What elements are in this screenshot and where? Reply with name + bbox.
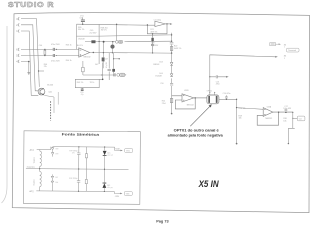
wire AC1 node to diodes xyxy=(50,147,52,150)
wire Q01 collector down xyxy=(57,92,59,105)
svg-text:1W 1%: 1W 1% xyxy=(101,30,107,32)
svg-text:4: 4 xyxy=(16,60,18,64)
op-amp U01A NE5532 xyxy=(79,48,90,57)
svg-text:Q01: Q01 xyxy=(48,91,52,93)
svg-text:TRAFO: TRAFO xyxy=(33,157,36,164)
svg-text:10k: 10k xyxy=(283,121,286,123)
arrow small box flag xyxy=(279,43,281,45)
zener DZ2 body xyxy=(102,183,106,187)
node chain 41 xyxy=(171,41,172,42)
wire to output jack xyxy=(293,117,297,119)
resistor R23 dark body xyxy=(151,38,153,42)
wire C07 down xyxy=(102,63,104,80)
wire pin1 to Q01 xyxy=(21,31,38,95)
ground pin4 xyxy=(27,73,30,75)
wire -15V out xyxy=(114,192,120,194)
capacitor C15 below box xyxy=(81,88,83,89)
capacitor C09 plates xyxy=(170,42,174,44)
node U02B output xyxy=(195,97,196,98)
node rail junction at feedback xyxy=(147,24,148,25)
svg-text:AC1: AC1 xyxy=(30,149,35,152)
svg-text:25V: 25V xyxy=(72,152,76,154)
resistor R07 xyxy=(82,61,84,75)
svg-text:47µ: 47µ xyxy=(81,94,84,96)
wire OPT01 up and right to X5 xyxy=(210,55,275,93)
output jack box xyxy=(297,116,305,121)
svg-text:1: 1 xyxy=(284,58,285,60)
wire U03A feedback loop xyxy=(257,112,278,125)
node output jack tap xyxy=(292,112,293,113)
boxed label Terminal xyxy=(286,48,299,52)
diode D07 xyxy=(51,176,54,178)
node rail drop junction xyxy=(116,24,117,25)
transformer winding W1 xyxy=(40,151,42,166)
wire OPT01 output xyxy=(219,95,263,143)
capacitor C15 plates dark xyxy=(81,89,84,90)
svg-text:1N4148: 1N4148 xyxy=(78,39,84,41)
wire chain vertical xyxy=(171,33,173,114)
connector X1 pin 1 xyxy=(18,30,19,33)
wire box left drop to input xyxy=(76,36,78,49)
capacitor C17 xyxy=(285,110,288,113)
svg-text:X5 IN: X5 IN xyxy=(198,178,219,189)
feedback box loop xyxy=(75,79,102,87)
resistor R22 xyxy=(170,46,172,50)
capacitor C18 xyxy=(78,147,80,169)
node pin4 end xyxy=(28,61,30,63)
svg-text:U03A: U03A xyxy=(267,105,272,108)
arrow -15V xyxy=(120,193,122,195)
svg-text:AC2: AC2 xyxy=(29,190,34,193)
svg-text:4k99 1%: 4k99 1% xyxy=(150,32,157,34)
node pin6/R02 junction xyxy=(44,49,45,50)
fonte box frame xyxy=(23,131,140,205)
capacitor C11 plates xyxy=(151,44,154,45)
resistor R31 xyxy=(85,154,87,158)
shielded cable dashes xyxy=(50,101,52,121)
svg-text:D07: D07 xyxy=(55,177,58,179)
zener DZ1 stubs xyxy=(104,147,106,169)
svg-text:6: 6 xyxy=(16,48,18,52)
node pin6 cap junction xyxy=(56,49,57,50)
boxed label VEE xyxy=(124,191,132,195)
svg-text:C15: C15 xyxy=(80,92,83,94)
node U03 output junctions xyxy=(278,112,279,113)
arrow note to OPT01 xyxy=(190,106,210,126)
wire feedback row xyxy=(83,74,114,76)
resistor R23 drop xyxy=(152,34,154,53)
svg-text:1N4148: 1N4148 xyxy=(155,76,161,78)
optocoupler OPT01 xyxy=(207,95,219,104)
wire 41-line left xyxy=(85,41,115,43)
svg-text:C19 2200µ: C19 2200µ xyxy=(69,178,77,180)
node chain out xyxy=(171,52,172,53)
node 41-line big junction xyxy=(103,41,105,43)
wire AC2 input xyxy=(36,190,52,192)
svg-text:C06: C06 xyxy=(79,17,82,19)
svg-text:D03: D03 xyxy=(159,62,162,64)
node junctions fonte xyxy=(78,146,79,147)
svg-text:OPT01: OPT01 xyxy=(207,91,212,93)
wire pin2 to Q01 xyxy=(21,25,38,91)
op-amp U02B xyxy=(172,94,207,109)
op-amp U03A xyxy=(257,108,293,126)
svg-text:-15V: -15V xyxy=(115,196,120,198)
node box right on 41-line xyxy=(99,41,100,42)
diode D03 xyxy=(170,62,173,65)
node 41-line small junction xyxy=(112,41,113,42)
svg-text:Fonte Simétrica: Fonte Simétrica xyxy=(62,132,100,136)
wire junction drop to cap xyxy=(102,42,104,69)
wire top rail xyxy=(53,146,115,148)
transformer winding W2 xyxy=(40,172,42,187)
node out junction xyxy=(93,52,94,53)
svg-text:+15V: +15V xyxy=(115,149,120,151)
arrow +15V xyxy=(120,150,122,152)
svg-text:470n 250V: 470n 250V xyxy=(51,44,60,46)
wire +15V out xyxy=(115,147,121,150)
svg-text:2n2 63V: 2n2 63V xyxy=(89,32,97,34)
wire pin3 to Q01 xyxy=(21,19,39,87)
svg-text:470n 250V: 470n 250V xyxy=(51,61,60,63)
capacitor C14 xyxy=(225,95,227,99)
wire Q01 emitter down xyxy=(44,95,54,113)
svg-text:Pag 73: Pag 73 xyxy=(156,219,169,224)
arrow jack J2 xyxy=(125,74,127,75)
connector X1 pin 2 xyxy=(18,23,19,26)
connector flag small box top right xyxy=(270,43,279,46)
node pin5 cap junction xyxy=(56,55,57,56)
svg-text:BC546: BC546 xyxy=(47,85,53,87)
boxed label VCC xyxy=(125,148,133,152)
capacitor C05 on pin5 line xyxy=(53,54,54,57)
connector X1 pin 4 xyxy=(18,60,19,63)
svg-text:C14 470n: C14 470n xyxy=(223,93,231,95)
svg-text:D08: D08 xyxy=(55,182,58,184)
node R29 end xyxy=(236,143,238,145)
svg-text:D05: D05 xyxy=(55,148,58,150)
arrow U02A output flag xyxy=(170,23,172,25)
wire output down with step xyxy=(288,112,297,143)
node R23 corner xyxy=(152,33,153,34)
capacitor jack row plates xyxy=(114,73,115,76)
stub with end dot xyxy=(114,58,120,60)
svg-text:NE5532: NE5532 xyxy=(265,118,272,120)
node chain end xyxy=(171,113,173,115)
svg-text:2: 2 xyxy=(284,47,285,49)
svg-text:15V 1W: 15V 1W xyxy=(107,187,113,189)
svg-text:OPT01 do outro canal é: OPT01 do outro canal é xyxy=(174,128,219,132)
op-amp U02A top right xyxy=(147,21,170,53)
svg-text:NE5532: NE5532 xyxy=(187,105,194,107)
zener DZ2 stubs xyxy=(103,169,105,191)
jack symbol J2 box xyxy=(120,73,125,76)
svg-text:R09 1%: R09 1% xyxy=(77,82,84,84)
wire pin4 stub xyxy=(21,62,29,73)
wire pin6 input line xyxy=(21,48,79,50)
svg-text:C18 2200µ: C18 2200µ xyxy=(69,150,77,152)
svg-text:C10: C10 xyxy=(160,83,163,85)
wire mid 0V line xyxy=(26,168,129,171)
wire U02A output xyxy=(166,23,171,25)
diode D05 xyxy=(51,148,54,150)
wire pin5 input line xyxy=(21,55,79,57)
svg-text:Terminal: Terminal xyxy=(288,49,296,52)
wire box bottom to chain xyxy=(99,35,172,36)
feedback network box R05/C05 xyxy=(77,24,100,36)
wire pin3 tap stub xyxy=(39,70,45,72)
capacitor C08 on vertical xyxy=(108,53,110,80)
arrow to X5 flag xyxy=(275,56,278,58)
transistor Q01 xyxy=(38,88,45,95)
svg-text:15V 1W: 15V 1W xyxy=(107,155,113,157)
svg-text:1N4148: 1N4148 xyxy=(153,64,159,66)
wire box right drop xyxy=(98,36,100,64)
connector X1 pin 3 xyxy=(18,17,19,20)
diode D07 stub chain xyxy=(51,174,53,191)
svg-text:VEE: VEE xyxy=(126,193,131,195)
capacitor C13 branch xyxy=(210,75,226,78)
svg-text:0V(GND): 0V(GND) xyxy=(27,167,35,169)
svg-text:8k2: 8k2 xyxy=(95,64,98,66)
node pin3 tap xyxy=(38,70,39,71)
jack symbol J2 circle xyxy=(117,74,120,77)
dark component on 41-line xyxy=(91,40,95,43)
connector X1 pin 6 xyxy=(18,48,19,51)
svg-text:VCC: VCC xyxy=(126,150,131,152)
wire bottom rail xyxy=(52,190,114,192)
svg-text:TRAFO: TRAFO xyxy=(33,179,36,186)
dark component on jack vertical xyxy=(112,69,115,72)
capacitor C06 plates xyxy=(81,20,85,22)
svg-text:R03 1k: R03 1k xyxy=(66,45,72,47)
pin stubs OPT01 top xyxy=(210,93,215,95)
svg-text:22k: 22k xyxy=(44,66,47,68)
diode D06 xyxy=(51,153,54,155)
svg-text:TR 1k: TR 1k xyxy=(90,82,95,84)
svg-text:alimentado pela fonte negativa: alimentado pela fonte negativa xyxy=(168,133,223,137)
node stub end xyxy=(119,58,120,59)
power supply box Fonte Simetrica xyxy=(23,131,140,205)
node row junctions xyxy=(102,79,104,81)
diode D04 xyxy=(170,74,173,77)
capacitor C10 plates xyxy=(170,83,173,85)
node C13 tap xyxy=(209,76,210,77)
svg-text:DZ1: DZ1 xyxy=(107,152,110,154)
wire blob stubs xyxy=(111,42,113,53)
svg-text:R28 10k: R28 10k xyxy=(239,108,246,110)
svg-text:1: 1 xyxy=(16,29,18,33)
transistor Q02 blob xyxy=(111,45,115,49)
svg-text:C04: C04 xyxy=(39,45,42,47)
node pin5 line junction xyxy=(44,55,45,56)
svg-text:NE5532: NE5532 xyxy=(84,57,91,59)
svg-text:C07: C07 xyxy=(105,58,108,60)
svg-text:10k: 10k xyxy=(239,118,242,120)
wire U02A feedback loop xyxy=(147,24,167,34)
svg-text:47µ 63V: 47µ 63V xyxy=(106,61,108,68)
resistor R32 xyxy=(85,179,87,183)
arrow C13 flag xyxy=(226,76,229,78)
svg-text:470n: 470n xyxy=(216,84,220,86)
node out-line junctions xyxy=(103,52,104,53)
wire U01 output line xyxy=(90,52,172,55)
svg-text:2: 2 xyxy=(16,23,18,27)
svg-text:D06: D06 xyxy=(55,153,58,155)
svg-text:4k99 1%: 4k99 1% xyxy=(174,48,182,50)
wire AC1 input xyxy=(37,148,51,150)
wire down from junction R29 xyxy=(236,99,238,143)
wire dark comp vertical xyxy=(113,53,115,73)
wire U02B output to OPT01 xyxy=(194,97,207,99)
svg-text:C11 100p: C11 100p xyxy=(154,20,161,22)
wire branch to U03 input xyxy=(237,108,264,110)
capacitor C19 xyxy=(78,169,80,191)
svg-text:Out: Out xyxy=(299,118,303,121)
svg-text:470n: 470n xyxy=(80,16,84,18)
node OPT output junction xyxy=(226,99,227,100)
paper edge xyxy=(2,26,8,203)
svg-text:100n 63V: 100n 63V xyxy=(283,108,291,110)
lower network under U01 xyxy=(75,53,119,89)
trimmer jack symbol xyxy=(115,41,122,44)
node R23 on out line xyxy=(152,52,153,53)
node U02A output junction xyxy=(166,23,167,24)
wire input stub xyxy=(172,95,182,97)
capacitor C06 stub xyxy=(82,18,84,25)
diode D08 xyxy=(51,181,54,183)
svg-text:10µ 63V: 10µ 63V xyxy=(151,45,159,47)
svg-text:39k 1%: 39k 1% xyxy=(78,29,85,31)
wire rail end drop xyxy=(116,24,118,40)
middle component chain xyxy=(170,33,174,114)
schematic frame border xyxy=(12,13,309,213)
svg-text:STUDIO R: STUDIO R xyxy=(8,0,54,9)
svg-text:5: 5 xyxy=(16,54,18,58)
svg-text:U02B: U02B xyxy=(184,90,189,92)
wire U03A output xyxy=(273,111,293,113)
svg-text:R04 1k: R04 1k xyxy=(66,60,72,62)
capacitor C04 on pin6 line xyxy=(53,48,54,51)
resistor R02 between input lines xyxy=(44,50,46,54)
svg-text:3k9 1%: 3k9 1% xyxy=(77,45,84,47)
wire U02B feedback loop xyxy=(175,98,195,109)
wire feedback rail above U01 xyxy=(77,24,155,25)
zener DZ1 body xyxy=(103,151,107,155)
svg-text:DZ2: DZ2 xyxy=(107,185,110,187)
node chain top xyxy=(171,34,172,35)
svg-text:27k0: 27k0 xyxy=(162,103,166,105)
svg-text:3: 3 xyxy=(16,17,18,21)
node rail C06 junction xyxy=(82,24,83,25)
resistor R24 xyxy=(170,98,172,102)
diode D05 stub chain xyxy=(52,147,54,157)
capacitor C07 electrolytic dark xyxy=(102,58,105,62)
wire 41-line right xyxy=(125,40,172,42)
connector X1 pin 5 xyxy=(18,54,19,57)
